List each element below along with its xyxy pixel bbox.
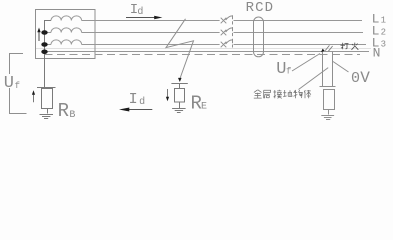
svg-text:I: I	[129, 91, 138, 108]
svg-text:R: R	[58, 100, 69, 122]
svg-text:V: V	[360, 69, 370, 87]
svg-text:f: f	[286, 66, 291, 76]
svg-text:f: f	[15, 81, 20, 91]
svg-text:B: B	[69, 110, 75, 121]
svg-text:d: d	[139, 96, 145, 108]
svg-text:U: U	[4, 74, 14, 93]
svg-text:1: 1	[381, 16, 386, 26]
svg-text:2: 2	[381, 28, 386, 38]
svg-text:3: 3	[381, 40, 386, 50]
svg-text:N: N	[373, 46, 381, 61]
svg-text:RCD: RCD	[246, 0, 275, 16]
svg-text:0: 0	[351, 70, 360, 87]
svg-text:E: E	[201, 102, 207, 113]
svg-text:d: d	[137, 6, 143, 18]
svg-text:U: U	[276, 60, 286, 79]
